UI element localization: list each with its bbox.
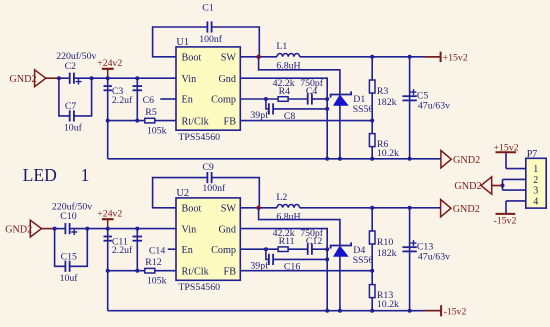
svg-text:FB: FB bbox=[224, 266, 237, 277]
node c8 to gnd line bbox=[325, 257, 329, 261]
power port -15v2 (P7 pin4) bbox=[505, 201, 507, 214]
svg-text:10.2k: 10.2k bbox=[377, 299, 399, 310]
diode D1 SS56 (schottky) bbox=[331, 91, 352, 97]
svg-text:FB: FB bbox=[224, 116, 237, 127]
wire output row bbox=[300, 56, 441, 58]
svg-text:P7: P7 bbox=[527, 149, 538, 160]
ground GND2 (P7 pins 2,3) bbox=[492, 185, 503, 187]
wire gnd symbol to input node bbox=[46, 77, 59, 79]
node diode anode on rail bbox=[338, 309, 342, 313]
svg-text:GND2: GND2 bbox=[453, 204, 480, 215]
pin En stub bbox=[168, 248, 176, 250]
svg-text:C10: C10 bbox=[60, 211, 76, 222]
node comp rc to gnd line bbox=[325, 97, 329, 101]
wire SW row bbox=[240, 56, 277, 58]
svg-text:C7: C7 bbox=[65, 101, 77, 112]
svg-text:2.2uf: 2.2uf bbox=[112, 245, 133, 256]
svg-text:C15: C15 bbox=[61, 251, 77, 262]
resistor R3 182k bbox=[370, 55, 374, 59]
capacitor C14 bbox=[136, 229, 138, 271]
capacitor C11 2.2uf bbox=[107, 229, 109, 271]
power port -15v2 (output 2) bbox=[424, 310, 434, 312]
wire ground drop to bottom rail bbox=[107, 121, 109, 159]
node +24v2 tap bbox=[106, 227, 110, 231]
node input-left junction bbox=[53, 227, 57, 231]
svg-text:105k: 105k bbox=[147, 125, 167, 136]
svg-text:R3: R3 bbox=[377, 86, 389, 97]
ground symbol GND2 (U2 input) bbox=[30, 220, 41, 237]
svg-text:220uf/50v: 220uf/50v bbox=[56, 51, 96, 62]
svg-text:R12: R12 bbox=[145, 257, 161, 268]
svg-text:SW: SW bbox=[221, 204, 237, 215]
svg-text:100nf: 100nf bbox=[202, 183, 226, 194]
svg-text:Rt/Clk: Rt/Clk bbox=[182, 266, 210, 277]
svg-text:TPS54560: TPS54560 bbox=[178, 132, 220, 143]
svg-text:SS56: SS56 bbox=[353, 255, 374, 266]
svg-text:L2: L2 bbox=[276, 192, 287, 203]
svg-text:C2: C2 bbox=[65, 61, 77, 72]
svg-text:GND2: GND2 bbox=[5, 224, 32, 235]
pin En stub bbox=[160, 98, 176, 100]
svg-text:C14: C14 bbox=[149, 245, 165, 256]
svg-text:U1: U1 bbox=[176, 37, 189, 48]
svg-text:100nf: 100nf bbox=[199, 34, 223, 45]
svg-text:R10: R10 bbox=[377, 237, 393, 248]
capacitor C15 10uf bbox=[55, 229, 66, 267]
wire ground drop to bottom rail bbox=[107, 271, 109, 311]
capacitor C10 220uf/50v bbox=[55, 228, 66, 230]
svg-text:Comp: Comp bbox=[211, 95, 236, 106]
svg-text:TPS54560: TPS54560 bbox=[178, 282, 220, 293]
node input-right junction bbox=[90, 76, 94, 80]
capacitor C12 750pf bbox=[288, 248, 308, 250]
resistor R12 105k bbox=[108, 270, 145, 272]
svg-text:C9: C9 bbox=[202, 162, 214, 173]
resistor R5 105k bbox=[108, 120, 145, 122]
svg-text:+24v2: +24v2 bbox=[97, 208, 122, 219]
svg-text:4: 4 bbox=[533, 196, 538, 207]
svg-text:R4: R4 bbox=[279, 86, 291, 97]
wire FB row bbox=[240, 120, 372, 122]
capacitor C8 39pf bbox=[266, 99, 269, 109]
svg-text:Vin: Vin bbox=[182, 74, 197, 85]
node C14 top bbox=[135, 227, 139, 231]
wire SW to diode cathode bbox=[259, 208, 340, 246]
svg-text:Vin: Vin bbox=[182, 224, 197, 235]
svg-text:10.2k: 10.2k bbox=[377, 148, 399, 159]
regulator IC U1 TPS54560 bbox=[176, 47, 240, 130]
capacitor C3 2.2uf bbox=[107, 78, 109, 120]
resistor R10 182k bbox=[370, 206, 374, 210]
svg-text:C6: C6 bbox=[143, 95, 155, 106]
inductor L1 6.8uH bbox=[277, 53, 300, 56]
power port +24v2 bbox=[102, 68, 114, 70]
power port +24v2 bbox=[102, 218, 114, 220]
node comp rc to gnd line bbox=[325, 247, 329, 251]
svg-text:Boot: Boot bbox=[182, 204, 202, 215]
capacitor C7 10uf bbox=[59, 78, 70, 116]
regulator IC U2 TPS54560 bbox=[176, 198, 240, 280]
resistor R11 42.2k bbox=[278, 247, 288, 252]
svg-text:10uf: 10uf bbox=[60, 273, 79, 284]
connector P7 bbox=[526, 158, 546, 208]
svg-text:U2: U2 bbox=[176, 188, 189, 199]
svg-text:C1: C1 bbox=[202, 2, 214, 13]
svg-text:+24v2: +24v2 bbox=[97, 58, 122, 69]
svg-text:LED: LED bbox=[23, 165, 57, 185]
wire SW row bbox=[240, 207, 277, 209]
svg-text:1: 1 bbox=[533, 164, 538, 175]
wire Gnd pin to rail bbox=[240, 229, 327, 311]
svg-text:R5: R5 bbox=[145, 107, 157, 118]
svg-text:Comp: Comp bbox=[211, 245, 236, 256]
svg-text:3: 3 bbox=[533, 186, 538, 197]
diode D4 SS56 (schottky) bbox=[331, 242, 352, 248]
node FB divider junction bbox=[370, 269, 374, 273]
node +24v2 tap bbox=[106, 76, 110, 80]
svg-text:47u/63v: 47u/63v bbox=[418, 100, 450, 111]
node input-right junction bbox=[85, 227, 89, 231]
svg-text:SS56: SS56 bbox=[353, 104, 374, 115]
wire FB row bbox=[240, 270, 372, 272]
wire Comp row bbox=[240, 248, 277, 250]
svg-text:10uf: 10uf bbox=[64, 123, 83, 134]
svg-text:-15v2: -15v2 bbox=[494, 215, 517, 226]
svg-text:C12: C12 bbox=[306, 236, 322, 247]
capacitor C1 100nf (boot) bbox=[153, 27, 208, 57]
svg-text:R11: R11 bbox=[279, 236, 295, 247]
svg-text:SW: SW bbox=[221, 53, 237, 64]
svg-text:105k: 105k bbox=[147, 276, 167, 287]
node rt/clk row left bbox=[106, 119, 110, 123]
wire Gnd pin to rail bbox=[240, 78, 327, 159]
node SW junction (red) bbox=[256, 206, 260, 210]
capacitor C2 220uf/50v bbox=[59, 77, 70, 79]
node diode anode on rail bbox=[338, 157, 342, 161]
capacitor C5 47u/63v bbox=[408, 55, 412, 59]
ground symbol GND2 (U1 input) bbox=[35, 70, 46, 87]
node gnd vertical on rail bbox=[325, 157, 329, 161]
inductor L2 6.8uH bbox=[277, 204, 300, 207]
svg-text:En: En bbox=[182, 245, 193, 256]
capacitor C16 39pf bbox=[266, 249, 269, 259]
capacitor C9 100nf (boot) bbox=[153, 178, 208, 208]
svg-text:Gnd: Gnd bbox=[218, 74, 236, 85]
svg-text:L1: L1 bbox=[276, 41, 287, 52]
ground GND2 (channel 2 output row) bbox=[441, 200, 451, 217]
resistor R13 10.2k bbox=[371, 271, 373, 311]
svg-text:39pf: 39pf bbox=[250, 260, 269, 271]
svg-text:+15v2: +15v2 bbox=[494, 143, 519, 154]
svg-text:C4: C4 bbox=[306, 86, 318, 97]
svg-text:47u/63v: 47u/63v bbox=[418, 251, 450, 262]
wire SW to diode cathode bbox=[259, 57, 340, 95]
node SW junction (red) bbox=[256, 55, 260, 59]
svg-text:2.2uf: 2.2uf bbox=[112, 95, 133, 106]
svg-text:GND2: GND2 bbox=[454, 181, 481, 192]
svg-text:1: 1 bbox=[81, 165, 90, 185]
capacitor C4 750pf bbox=[288, 98, 308, 100]
node FB divider junction bbox=[370, 119, 374, 123]
svg-text:182k: 182k bbox=[377, 248, 397, 259]
ground GND2 (rail 1 end) bbox=[441, 151, 451, 168]
node C6 top bbox=[135, 76, 139, 80]
svg-text:-15v2: -15v2 bbox=[444, 307, 467, 318]
capacitor C6 bbox=[136, 78, 138, 120]
resistor R6 10.2k bbox=[371, 121, 373, 159]
node input-left junction bbox=[57, 76, 61, 80]
svg-text:En: En bbox=[182, 95, 193, 106]
svg-text:6.8uH: 6.8uH bbox=[276, 211, 300, 222]
svg-text:Rt/Clk: Rt/Clk bbox=[182, 116, 210, 127]
node comp junction bbox=[264, 247, 268, 251]
wire gnd symbol to input node bbox=[42, 228, 55, 230]
capacitor C13 47u/63v bbox=[408, 206, 412, 210]
node c8 to gnd line bbox=[325, 107, 329, 111]
wire pins 2-3 join bbox=[502, 179, 504, 190]
power port +15v2 (output 1) bbox=[424, 56, 433, 58]
svg-text:Boot: Boot bbox=[182, 53, 202, 64]
svg-text:182k: 182k bbox=[377, 97, 397, 108]
svg-text:GND2: GND2 bbox=[9, 74, 36, 85]
svg-text:+15v2: +15v2 bbox=[443, 52, 468, 63]
wire bottom rail bbox=[108, 158, 441, 160]
node pins 2-3 bbox=[501, 184, 505, 188]
wire bottom rail bbox=[108, 310, 441, 312]
wire output row bbox=[300, 207, 441, 209]
svg-text:Gnd: Gnd bbox=[218, 224, 236, 235]
svg-text:2: 2 bbox=[533, 175, 538, 186]
wire Comp row bbox=[240, 98, 277, 100]
node rt/clk row left bbox=[106, 269, 110, 273]
node gnd vertical on rail bbox=[325, 309, 329, 313]
power port +15v2 (P7 pin1) bbox=[505, 152, 507, 168]
node comp junction bbox=[264, 97, 268, 101]
wire Vin row bbox=[87, 228, 176, 230]
svg-text:GND2: GND2 bbox=[453, 155, 480, 166]
resistor R4 42.2k bbox=[278, 97, 288, 102]
svg-text:39pf: 39pf bbox=[250, 110, 269, 121]
wire Vin row bbox=[92, 77, 176, 79]
